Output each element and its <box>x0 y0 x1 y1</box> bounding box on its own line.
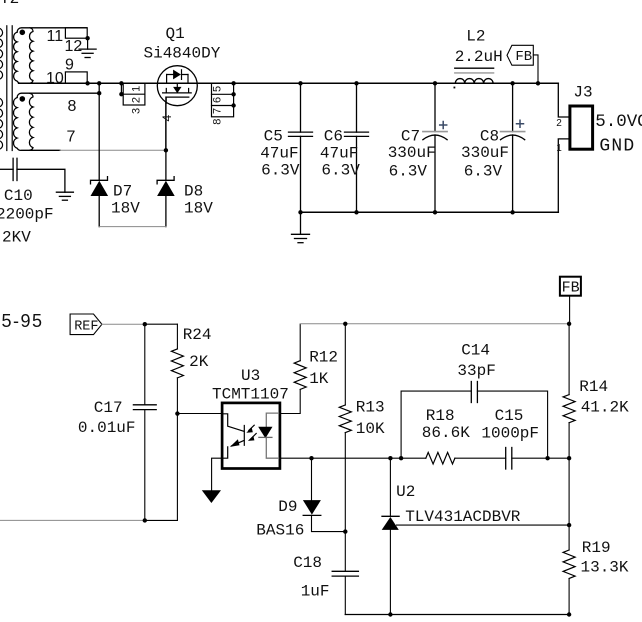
svg-text:10: 10 <box>46 70 64 87</box>
wire lower-left net (gray) <box>0 519 145 521</box>
svg-text:8: 8 <box>68 98 77 115</box>
junction dots (bottom section) <box>143 322 572 617</box>
wire pin 7 net (gray) <box>60 149 166 151</box>
ground (C5 rail) <box>292 212 310 242</box>
svg-text:7: 7 <box>211 108 223 114</box>
diode D9 <box>303 458 345 531</box>
polarity dot pin 11 <box>20 30 26 36</box>
svg-text:1: 1 <box>130 86 142 92</box>
svg-text:41.2K: 41.2K <box>581 399 629 417</box>
C6 labels <box>320 127 360 179</box>
resistor R24 <box>171 324 183 413</box>
svg-text:1uF: 1uF <box>301 582 330 600</box>
transformer T2 core <box>7 26 12 151</box>
svg-text:18V: 18V <box>111 199 140 217</box>
shunt reference U2 TLV431 <box>382 458 399 614</box>
svg-text:2.2uH: 2.2uH <box>455 48 503 66</box>
R13 labels <box>356 399 385 438</box>
svg-text:R24: R24 <box>183 326 212 344</box>
wire Q1 gate / D8 branch <box>165 97 167 180</box>
resistor R13 <box>339 324 351 572</box>
FB flag (top) <box>507 45 538 83</box>
wire D7 branch <box>98 83 100 180</box>
C14 labels <box>457 341 495 380</box>
svg-text:86.6K: 86.6K <box>422 424 470 442</box>
transformer T2 secondary winding pins 11/12 <box>14 28 87 83</box>
R18 labels <box>422 407 470 442</box>
svg-text:2K: 2K <box>189 353 209 371</box>
D9 labels <box>256 498 304 539</box>
zener diode D7 <box>91 177 109 227</box>
svg-text:3: 3 <box>130 108 142 114</box>
svg-text:47uF: 47uF <box>260 145 298 163</box>
wire REF to R24 <box>145 323 178 325</box>
svg-text:0.01uF: 0.01uF <box>78 419 136 437</box>
svg-text:U2: U2 <box>396 483 415 501</box>
svg-text:330uF: 330uF <box>388 144 436 162</box>
ground (pin 12) <box>79 49 96 57</box>
C15 labels <box>481 407 539 443</box>
svg-text:9: 9 <box>65 57 74 74</box>
zener diode D8 <box>157 177 175 227</box>
svg-text:T2: T2 <box>0 0 19 8</box>
svg-text:2200pF: 2200pF <box>0 205 54 223</box>
svg-text:BAS16: BAS16 <box>256 522 304 540</box>
R19 labels <box>581 539 629 576</box>
svg-text:C8: C8 <box>480 127 499 145</box>
svg-text:C14: C14 <box>461 341 490 359</box>
C18 labels <box>293 554 329 601</box>
D8 labels <box>184 182 213 217</box>
svg-text:12: 12 <box>65 38 83 55</box>
pin 9 number <box>65 57 74 74</box>
svg-text:D8: D8 <box>184 182 203 200</box>
pin 7 number <box>67 129 76 146</box>
capacitor C17 <box>133 324 156 520</box>
R14 labels <box>579 378 629 416</box>
REF flag <box>70 314 102 335</box>
svg-text:REF: REF <box>74 319 98 334</box>
resistor R12 <box>294 324 306 389</box>
resistor R19 <box>563 550 575 615</box>
sheet title text (clipped) 5-95 <box>2 311 44 331</box>
wire REF net (gray) <box>102 323 145 325</box>
Q1 gate lead <box>165 103 167 150</box>
svg-text:D7: D7 <box>113 182 132 200</box>
FB box (lower) <box>560 277 581 324</box>
capacitor C6 <box>345 83 369 212</box>
svg-text:6.3V: 6.3V <box>389 162 428 180</box>
Q1 drain pin box (pins 5,6,7,8) <box>212 83 234 117</box>
svg-text:33pF: 33pF <box>457 362 495 380</box>
svg-text:1000pF: 1000pF <box>481 424 539 442</box>
inductor L2 <box>454 68 494 88</box>
wire R24 junction down to lower rail <box>176 414 178 521</box>
svg-text:TCMT1107: TCMT1107 <box>212 386 289 404</box>
MOSFET Q1 <box>157 66 197 106</box>
svg-text:R19: R19 <box>582 539 611 557</box>
ground (C10) <box>56 192 73 200</box>
C5 labels <box>260 127 300 179</box>
Q1 pins 5,6,7,8 numbers <box>211 86 223 125</box>
C17 labels <box>78 399 136 437</box>
net 5.0VOUT label <box>595 112 642 132</box>
svg-text:8: 8 <box>212 119 224 125</box>
svg-text:11: 11 <box>47 28 64 45</box>
junction dots (top section) <box>85 81 540 214</box>
svg-text:R14: R14 <box>579 378 608 396</box>
wire pin12 to ground <box>87 38 89 49</box>
L2 labels <box>455 28 503 66</box>
svg-text:J3: J3 <box>573 83 592 101</box>
wire C17 bottom to R24 column <box>145 519 178 521</box>
svg-text:R13: R13 <box>356 399 385 417</box>
pin 8 number <box>68 98 77 115</box>
capacitor C7 (electrolytic) <box>423 83 447 212</box>
C10 label <box>4 187 33 205</box>
svg-text:C7: C7 <box>401 127 420 145</box>
wire U3 to compensation network <box>281 457 426 459</box>
svg-text:GND: GND <box>599 137 635 157</box>
polarity dot pin 8 <box>20 96 26 102</box>
svg-text:C6: C6 <box>324 127 343 145</box>
svg-text:5-95: 5-95 <box>2 311 44 331</box>
svg-text:6.3V: 6.3V <box>464 162 503 180</box>
wire D7-D8 bottom (gray) <box>99 226 166 228</box>
svg-text:TLV431ACDBVR: TLV431ACDBVR <box>405 508 521 526</box>
svg-text:C18: C18 <box>293 554 322 572</box>
svg-text:6: 6 <box>211 97 223 103</box>
pin 10 number <box>46 70 64 87</box>
svg-text:1K: 1K <box>309 370 329 388</box>
bottom GND rail wire <box>301 211 559 213</box>
transformer T2 secondary winding pins 8/7 <box>13 93 99 150</box>
svg-text:10K: 10K <box>356 420 385 438</box>
svg-text:13.3K: 13.3K <box>581 559 629 577</box>
C7 labels <box>388 127 436 180</box>
Q1 source pin box (pins 3,2,1) <box>121 83 144 105</box>
bottom return wire <box>345 614 569 616</box>
svg-text:R12: R12 <box>309 349 338 367</box>
svg-text:U3: U3 <box>241 367 260 385</box>
svg-text:L2: L2 <box>466 28 485 46</box>
svg-text:7: 7 <box>67 129 76 146</box>
wire R18 to C15 <box>455 457 506 459</box>
capacitor C8 (electrolytic) <box>501 83 525 212</box>
signal ground arrow (U3) <box>202 490 221 503</box>
resistor R18 <box>426 452 455 464</box>
Q1 pins 1,2,3 numbers <box>130 86 142 114</box>
svg-text:FB: FB <box>515 49 532 65</box>
svg-text:2: 2 <box>556 118 562 129</box>
wire R24 to U3 pin 1 <box>177 413 221 415</box>
pin 10 box <box>65 72 87 83</box>
svg-text:Q1: Q1 <box>166 25 185 43</box>
D7 labels <box>111 182 140 217</box>
svg-text:2: 2 <box>130 97 142 103</box>
svg-text:D9: D9 <box>278 498 297 516</box>
Q1 pin 4 number <box>160 114 174 121</box>
svg-text:1: 1 <box>556 143 562 154</box>
capacitor C18 <box>332 571 358 614</box>
svg-text:5: 5 <box>211 86 223 92</box>
svg-text:5.0VOUT: 5.0VOUT <box>595 112 642 132</box>
J3 labels <box>556 83 592 154</box>
wire U2 ref to R14/R19 junction <box>397 524 570 526</box>
pin 12 box <box>65 28 87 38</box>
svg-text:4: 4 <box>160 114 174 121</box>
svg-text:2KV: 2KV <box>2 228 31 246</box>
svg-text:6.3V: 6.3V <box>261 161 300 179</box>
C10 value <box>0 205 54 246</box>
svg-text:C5: C5 <box>264 127 283 145</box>
net GND label <box>599 137 635 157</box>
transformer T2 primary winding (clipped at left edge) <box>0 28 3 149</box>
svg-text:18V: 18V <box>184 199 213 217</box>
connector J3 <box>558 83 592 212</box>
capacitor C14 bypass branch <box>401 382 547 459</box>
svg-text:FB: FB <box>562 279 580 296</box>
wire C15 to R14 column <box>512 457 569 459</box>
svg-text:Si4840DY: Si4840DY <box>144 45 221 63</box>
pin 11 number <box>47 28 64 45</box>
wire FB net (gray, R12 to FB) <box>300 323 569 325</box>
main +5V rail wire <box>19 82 559 84</box>
resistor R14 <box>563 324 575 550</box>
wire U3 collector to R12 <box>281 389 301 413</box>
Q1 labels <box>144 25 221 63</box>
svg-text:C17: C17 <box>94 399 123 417</box>
svg-text:C10: C10 <box>4 187 33 205</box>
capacitor C5 <box>289 83 313 212</box>
C8 labels <box>461 127 509 180</box>
capacitor C10 <box>0 158 65 192</box>
svg-text:R18: R18 <box>426 407 455 425</box>
pin 12 number <box>65 38 83 55</box>
capacitor C15 <box>506 448 512 470</box>
svg-text:C15: C15 <box>495 407 524 425</box>
R12 labels <box>309 349 338 389</box>
U2 labels <box>396 483 521 526</box>
svg-text:47uF: 47uF <box>320 145 358 163</box>
optocoupler U3 <box>222 403 280 469</box>
R24 labels <box>183 326 212 371</box>
svg-text:330uF: 330uF <box>461 144 509 162</box>
U3 labels <box>212 367 289 403</box>
junction pin12 <box>85 36 89 40</box>
transformer T2 label (clipped at top) <box>0 0 19 8</box>
svg-text:6.3V: 6.3V <box>321 161 360 179</box>
wire U3 emitter to signal ground <box>212 458 222 490</box>
